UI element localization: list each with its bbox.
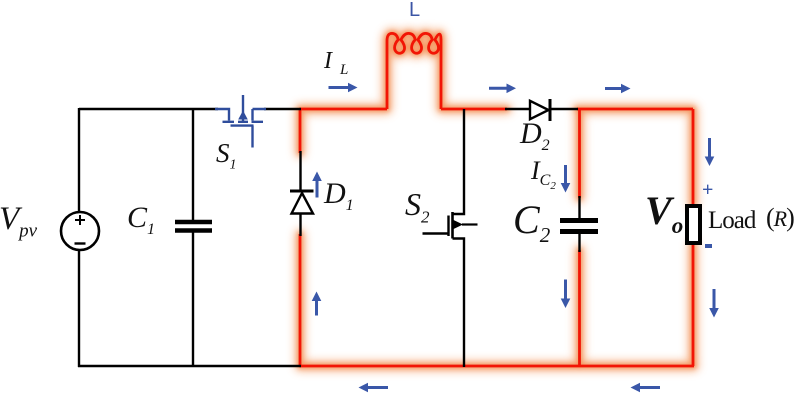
capacitor C2 wire lower black: [578, 234, 580, 253]
red highlighted current loop (outer glow layer): [300, 33, 694, 366]
capacitor C1 branch wire top: [192, 108, 194, 220]
arrow D1 branch up lower: [312, 292, 322, 316]
label C1: [127, 201, 155, 239]
wire top rail left (Vpv to S1): [79, 108, 218, 110]
wire top rail S1 to red node: [264, 108, 301, 110]
arrow before load right: [605, 84, 631, 94]
label IC2: [531, 156, 556, 192]
switch S2 gate bar: [447, 216, 449, 237]
diode D1 cathode bar: [290, 190, 314, 193]
wire after D2: [551, 108, 578, 110]
label S1: [216, 138, 237, 173]
blue arrows: [312, 83, 719, 393]
wire red: L right leg to D2 anode side: [441, 108, 507, 111]
arrow IC2 down: [561, 165, 571, 193]
arrow IL right: [329, 83, 358, 93]
diode D2 cathode bar: [549, 99, 552, 121]
capacitor C2 wire upper black: [578, 196, 580, 218]
wire red: C2 branch lower segment: [578, 250, 581, 366]
arrow after D2 right: [489, 84, 516, 94]
label D2: [520, 117, 550, 155]
red highlighted current loop (inner glow layer): [300, 33, 694, 366]
red highlighted current path (core red wires): [300, 33, 694, 366]
label minus at load: [705, 244, 712, 248]
arrow D1 up near diode: [312, 172, 322, 198]
wire red: D1 branch lower segment and bottom return rail: [300, 234, 694, 366]
switch S2 source wire: [453, 239, 465, 368]
label D1: [324, 177, 354, 215]
capacitor C1 plates: [175, 222, 212, 231]
label IL subscript L: [340, 62, 348, 79]
wire red: node A top corner, S1 drain to D1 branch and toward L: [300, 109, 387, 153]
wire left branch Vpv vertical top: [78, 108, 80, 212]
arrow bottom rail left 2: [631, 383, 661, 393]
arrow down top right: [705, 138, 715, 166]
switch S2 gate lead: [423, 232, 449, 234]
capacitor C1 branch wire bottom: [192, 233, 194, 368]
diode D1 triangle: [292, 193, 314, 214]
voltage source plus sign: [75, 215, 85, 225]
arrow bottom rail left 1: [359, 383, 389, 393]
label IL: [324, 48, 332, 75]
label L (blue): [409, 0, 420, 22]
capacitor C2 plates: [560, 221, 598, 232]
label Vpv: [0, 201, 37, 243]
diode D1 wire upper black: [299, 151, 301, 191]
voltage source Vpv circle: [61, 212, 99, 250]
label plus at load: [702, 179, 713, 202]
wire red: D2 cathode to load branch top rail: [577, 108, 693, 111]
arrow load branch down: [709, 289, 719, 318]
wire top rail D2 section black: [505, 108, 530, 110]
label Load: [708, 207, 755, 235]
wire red: load branch lower segment: [692, 244, 695, 366]
label (R): [766, 203, 794, 233]
switch S1 arrow head: [238, 111, 248, 120]
voltage source minus sign: [75, 242, 86, 244]
inductor L coil: [387, 33, 441, 109]
switch S1 MOSFET (blue): [215, 95, 266, 148]
label Vo: [645, 187, 683, 239]
wire red: load branch upper segment: [692, 109, 695, 205]
switch S2 MOSFET drain wire: [453, 109, 465, 214]
arrow below C2 down: [561, 280, 571, 309]
switch S2 body arrow: [462, 223, 478, 225]
wire left branch Vpv vertical bottom: [78, 250, 80, 367]
wire bottom rail black: [78, 365, 301, 367]
load resistor box: [687, 206, 700, 243]
wire red: C2 branch upper segment: [578, 109, 581, 198]
diode D1 wire lower black: [299, 214, 301, 237]
label C2: [513, 196, 550, 248]
label S2: [405, 186, 430, 227]
diode D2 triangle: [530, 101, 549, 119]
switch S2 channel segments: [451, 212, 454, 239]
